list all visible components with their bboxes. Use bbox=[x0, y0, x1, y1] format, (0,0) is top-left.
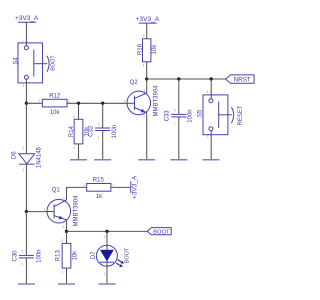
wire S5 top bbox=[210, 79, 212, 99]
svg-text:BOOT: BOOT bbox=[153, 229, 170, 235]
svg-text:1: 1 bbox=[174, 122, 176, 126]
resistor R14 10k bbox=[69, 115, 91, 150]
svg-text:1k: 1k bbox=[96, 194, 103, 200]
wire S4 pin 2 down bbox=[25, 79, 27, 103]
resistor R16 10k bbox=[137, 34, 158, 67]
svg-text:R15: R15 bbox=[93, 178, 105, 184]
ground under R14 bbox=[70, 159, 87, 161]
svg-text:3: 3 bbox=[143, 89, 145, 93]
svg-text:1: 1 bbox=[22, 168, 24, 172]
ground under R13 bbox=[58, 283, 75, 285]
svg-text:1: 1 bbox=[68, 99, 70, 103]
svg-text:1: 1 bbox=[124, 99, 126, 103]
diode D6 1N4148 bbox=[12, 146, 43, 171]
svg-text:2: 2 bbox=[83, 183, 85, 187]
wire D7 top bbox=[106, 231, 108, 245]
wire BOOT net bbox=[67, 230, 148, 232]
svg-text:1: 1 bbox=[22, 40, 24, 44]
svg-text:1: 1 bbox=[104, 272, 106, 276]
resistor R12 10k bbox=[38, 94, 70, 116]
node junction R14 bbox=[77, 102, 80, 105]
wire R12 to Q2 base bbox=[67, 102, 127, 104]
ground under C33 bbox=[170, 159, 187, 161]
svg-text:2: 2 bbox=[98, 122, 100, 126]
svg-text:R13: R13 bbox=[56, 250, 62, 262]
wire Q1 emitter down bbox=[66, 220, 68, 232]
svg-text:2: 2 bbox=[73, 115, 75, 119]
svg-text:NRST: NRST bbox=[234, 77, 251, 84]
svg-text:D6: D6 bbox=[12, 151, 18, 159]
wire R15 to supply bbox=[111, 186, 131, 188]
LED D7 (BOOT) bbox=[91, 235, 131, 276]
svg-text:1: 1 bbox=[73, 146, 75, 150]
switch S5 (RESET) bbox=[197, 90, 244, 139]
node junction S5 bbox=[210, 77, 213, 80]
svg-text:10k: 10k bbox=[50, 110, 61, 116]
wire Q1 collector up and to R15 bbox=[67, 187, 87, 200]
wire Q2 emitter to ground bbox=[146, 113, 148, 160]
capacitor C30 100n bbox=[12, 250, 42, 267]
svg-text:Q2: Q2 bbox=[130, 80, 139, 86]
svg-text:2: 2 bbox=[207, 135, 209, 139]
wire S5 bottom bbox=[210, 131, 212, 160]
svg-text:1: 1 bbox=[207, 90, 209, 94]
resistor R13 10k bbox=[56, 239, 79, 274]
wire supply to S4 pin 1 bbox=[25, 22, 27, 45]
wire node to D6 bbox=[25, 103, 27, 154]
svg-text:1: 1 bbox=[61, 270, 63, 274]
svg-text:R12: R12 bbox=[49, 94, 61, 100]
svg-text:BOOT: BOOT bbox=[125, 247, 131, 263]
wire R14 top bbox=[78, 103, 80, 119]
wire C32 top bbox=[102, 103, 104, 128]
svg-text:2: 2 bbox=[143, 115, 145, 119]
wire C30 to ground bbox=[25, 258, 27, 284]
wire NRST net bbox=[147, 78, 226, 80]
wire C33 top bbox=[178, 79, 180, 114]
node junction Q1 base bbox=[25, 210, 28, 213]
svg-text:2: 2 bbox=[22, 146, 24, 150]
svg-text:MMBT3904: MMBT3904 bbox=[154, 85, 160, 117]
svg-text:2: 2 bbox=[21, 250, 23, 254]
capacitor C33 100n bbox=[165, 109, 194, 126]
svg-text:1: 1 bbox=[98, 136, 100, 140]
supply +3V3_A (top-left) bbox=[15, 15, 39, 22]
svg-text:1N4148: 1N4148 bbox=[36, 146, 42, 168]
wire supply to R16 bbox=[146, 23, 148, 39]
node junction S4/R12/D6 bbox=[25, 102, 28, 105]
wire Q1 base node to C30 bbox=[25, 212, 27, 256]
svg-text:+3V3_A: +3V3_A bbox=[132, 175, 139, 199]
svg-text:C32: C32 bbox=[89, 125, 95, 137]
svg-text:C33: C33 bbox=[165, 110, 171, 122]
wire to R12 bbox=[26, 102, 42, 104]
svg-text:3: 3 bbox=[63, 197, 65, 201]
wire D7 to ground bbox=[106, 266, 108, 284]
node junction D7 bbox=[105, 230, 108, 233]
svg-text:S4: S4 bbox=[14, 57, 20, 65]
wire C33 bottom bbox=[178, 117, 180, 160]
svg-text:1: 1 bbox=[113, 183, 115, 187]
svg-text:2: 2 bbox=[63, 225, 65, 229]
svg-text:R14: R14 bbox=[69, 125, 75, 137]
ground under C32 bbox=[94, 159, 111, 161]
svg-text:BOOT: BOOT bbox=[50, 55, 56, 71]
svg-text:+3V3_A: +3V3_A bbox=[136, 16, 160, 23]
ground under S5 bbox=[203, 159, 220, 161]
svg-text:C30: C30 bbox=[12, 250, 18, 262]
wire R13 to ground bbox=[66, 268, 68, 284]
svg-text:100n: 100n bbox=[187, 109, 193, 122]
node junction C33 bbox=[177, 77, 180, 80]
wire R14 bottom bbox=[78, 144, 80, 160]
svg-text:10k: 10k bbox=[152, 44, 158, 55]
capacitor C32 100n bbox=[89, 122, 119, 139]
ground under Q2 bbox=[138, 159, 155, 161]
svg-text:1: 1 bbox=[44, 208, 46, 212]
svg-text:2: 2 bbox=[22, 83, 24, 87]
wire Q1 base bbox=[26, 211, 47, 213]
node junction R16/Q2/NRST bbox=[145, 77, 148, 80]
svg-text:RESET: RESET bbox=[238, 105, 244, 125]
ground under D7 bbox=[99, 283, 116, 285]
svg-text:Q1: Q1 bbox=[52, 188, 61, 194]
supply +3V3_A (rotated, right of R15) bbox=[131, 175, 139, 199]
svg-text:2: 2 bbox=[143, 34, 145, 38]
node junction C32 bbox=[101, 102, 104, 105]
node junction Q1 emitter / R13 bbox=[65, 230, 68, 233]
svg-text:S5: S5 bbox=[197, 109, 203, 117]
wire R13 top bbox=[66, 231, 68, 243]
wire R16 to node bbox=[146, 62, 148, 79]
wire D6 to Q1 base node bbox=[25, 164, 27, 211]
svg-text:2: 2 bbox=[38, 99, 40, 103]
svg-text:1: 1 bbox=[21, 263, 23, 267]
svg-text:1: 1 bbox=[143, 63, 145, 67]
svg-text:100n: 100n bbox=[112, 125, 118, 138]
svg-text:2: 2 bbox=[104, 235, 106, 239]
switch S4 (BOOT) bbox=[14, 40, 57, 87]
ground under C30 bbox=[18, 283, 35, 285]
svg-text:2: 2 bbox=[61, 239, 63, 243]
resistor R15 1k bbox=[83, 178, 114, 200]
net flag BOOT bbox=[147, 228, 171, 236]
transistor Q2 MMBT3904 bbox=[124, 80, 160, 119]
svg-text:D7: D7 bbox=[91, 251, 97, 259]
svg-text:100n: 100n bbox=[37, 250, 43, 263]
transistor Q1 MMBT3904 bbox=[44, 188, 80, 229]
wire node to Q2 collector bbox=[146, 79, 148, 93]
svg-text:+3V3_A: +3V3_A bbox=[15, 15, 39, 22]
svg-text:MMBT3904: MMBT3904 bbox=[73, 195, 79, 227]
svg-text:2: 2 bbox=[174, 109, 176, 113]
svg-text:R16: R16 bbox=[137, 43, 143, 55]
net flag NRST bbox=[226, 75, 255, 84]
svg-text:10k: 10k bbox=[72, 250, 78, 261]
supply +3V3_A (top-middle) bbox=[136, 16, 160, 23]
wire C32 bottom bbox=[102, 131, 104, 160]
